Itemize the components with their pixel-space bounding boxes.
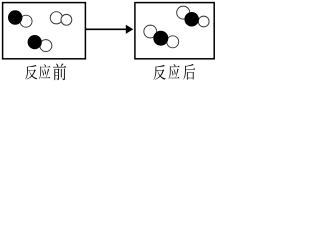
molecule M2 white atom left — [50, 12, 62, 24]
molecule M1 black atom — [8, 10, 22, 24]
molecule M5 white atom upper-left — [144, 25, 157, 38]
box: after-reaction container — [135, 3, 214, 59]
molecule M3 white atom — [40, 40, 52, 52]
label: before reaction 应 — [39, 64, 50, 79]
reaction arrow head — [126, 25, 134, 34]
label: after reaction 应 — [168, 64, 179, 79]
label: before reaction 反 — [25, 65, 37, 79]
molecule M4 white atom right — [198, 16, 209, 27]
label: after reaction 反 — [153, 65, 165, 80]
background — [0, 0, 218, 83]
box: before-reaction container — [3, 3, 86, 59]
molecule M3 black atom — [28, 35, 42, 49]
label: after reaction 后 — [183, 64, 195, 80]
label: before reaction 前 — [53, 63, 66, 80]
reaction arrow shaft — [86, 28, 127, 30]
molecule M4 black atom — [184, 12, 199, 27]
molecule M2 white atom right — [61, 14, 72, 25]
molecule M4 white atom upper-left — [177, 6, 190, 19]
molecule M1 white atom — [20, 15, 32, 27]
molecule M5 white atom right — [167, 36, 179, 48]
molecule M5 black atom — [153, 31, 168, 46]
